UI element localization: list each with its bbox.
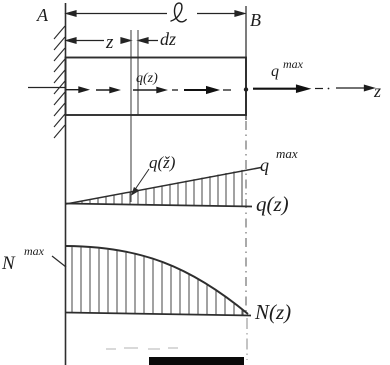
load arrow 2 xyxy=(96,88,119,93)
section line z xyxy=(130,30,132,202)
label l (script ell) xyxy=(171,3,186,22)
load arrow 3 xyxy=(133,88,166,93)
watermark bar xyxy=(149,357,244,365)
q diagram hatching xyxy=(74,170,242,207)
svg-text:q(ž): q(ž) xyxy=(149,153,176,172)
axis lead-in wire xyxy=(28,87,65,89)
q diagram slope xyxy=(66,168,261,205)
wire dash-dot xyxy=(315,88,323,90)
svg-text:z: z xyxy=(373,81,381,101)
bar outline xyxy=(66,58,247,116)
svg-text:dz: dz xyxy=(160,29,176,49)
faint watermark remains xyxy=(106,348,178,349)
wire dash xyxy=(172,89,178,91)
section line z+dz xyxy=(137,30,139,115)
svg-text:q: q xyxy=(271,63,279,80)
z axis arrow xyxy=(336,85,374,90)
N baseline xyxy=(65,313,251,316)
leader arrow xyxy=(132,169,149,195)
svg-text:q(z): q(z) xyxy=(136,71,158,86)
support line B (vertical) xyxy=(245,6,247,120)
svg-text:max: max xyxy=(276,146,298,161)
leader N max xyxy=(52,256,66,267)
load arrow 1 xyxy=(66,87,88,92)
svg-text:B: B xyxy=(250,10,261,30)
dimension z xyxy=(67,38,131,43)
N hatching xyxy=(72,247,243,315)
svg-text:z: z xyxy=(105,32,114,53)
svg-text:N: N xyxy=(1,253,16,274)
svg-text:max: max xyxy=(24,244,45,258)
svg-text:q(z): q(z) xyxy=(256,192,289,216)
svg-text:q: q xyxy=(260,155,269,175)
load arrow 4 xyxy=(184,87,217,93)
svg-text:max: max xyxy=(283,57,304,71)
N curve xyxy=(66,246,248,314)
wire dash xyxy=(223,89,231,91)
dimension l arrow xyxy=(67,11,245,16)
wall line A xyxy=(65,3,67,365)
svg-text:N(z): N(z) xyxy=(254,300,291,324)
dimension dz xyxy=(139,38,159,43)
arrow q max xyxy=(253,86,308,92)
svg-text:A: A xyxy=(36,5,49,25)
q diagram baseline xyxy=(66,204,252,207)
wall hatching xyxy=(54,26,65,138)
junction dot at B xyxy=(244,87,248,91)
